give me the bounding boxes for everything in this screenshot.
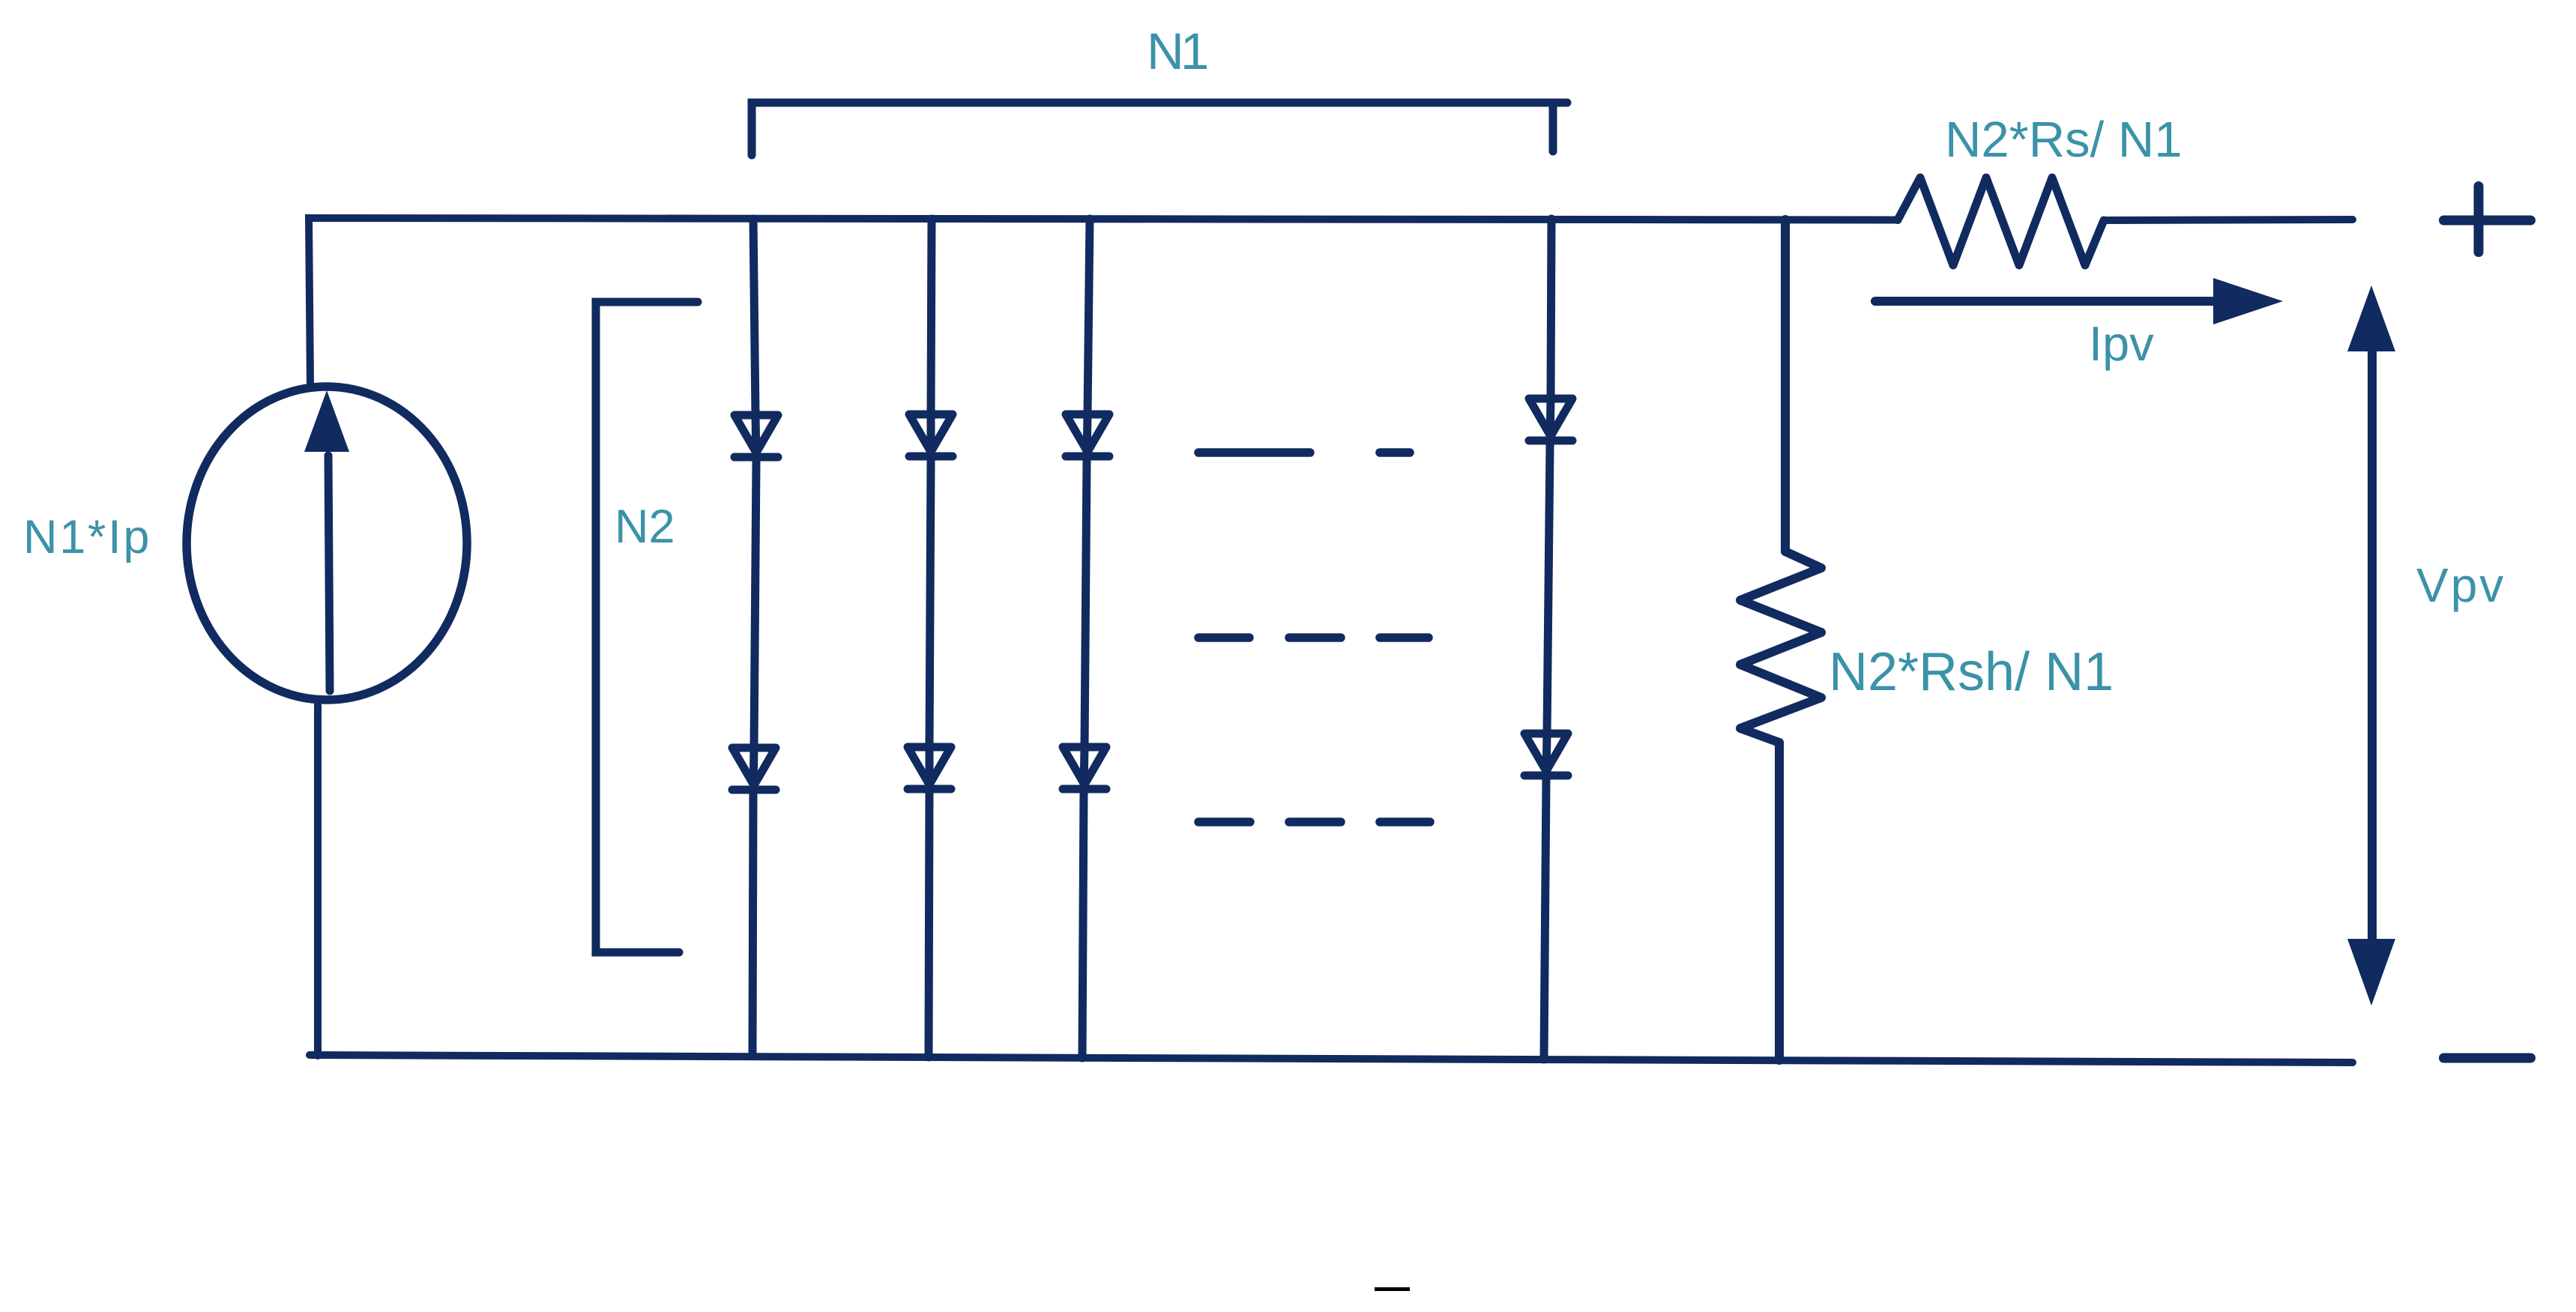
- diode D2 string1: [732, 748, 776, 790]
- diode D1 string2: [909, 414, 953, 456]
- resistor N2*Rs/N1 zigzag: [1898, 178, 2104, 265]
- diode D1 string3: [1066, 414, 1109, 456]
- dashed continuation row 1: [1198, 448, 1410, 457]
- diode D1 string1: [735, 415, 778, 457]
- svg-text:N2: N2: [615, 501, 675, 553]
- N2 bracket: [596, 302, 698, 952]
- wire diode string 1: [752, 219, 756, 1055]
- caption fragment: [1375, 1287, 1410, 1291]
- current source arrow head: [304, 390, 349, 452]
- wire below current source: [314, 705, 322, 1056]
- plus terminal: [2444, 187, 2531, 253]
- dashed continuation row 3: [1198, 817, 1430, 826]
- wire diode string 2: [929, 219, 932, 1057]
- wire diode string N1: [1544, 219, 1551, 1059]
- svg-text:Ipv: Ipv: [2089, 316, 2154, 371]
- current source arrow shaft: [328, 456, 330, 691]
- wire shunt branch vertical top: [1781, 220, 1790, 551]
- svg-text:N1*Ip: N1*Ip: [23, 511, 151, 563]
- Vpv arrow head bottom: [2347, 939, 2395, 1006]
- wire top bus and left vertical riser: [309, 218, 1898, 384]
- N1 bracket: [752, 103, 1567, 155]
- svg-text:Vpv: Vpv: [2416, 558, 2506, 612]
- wire bottom bus: [310, 1055, 2353, 1062]
- Ipv arrow head: [2213, 278, 2283, 324]
- diode D1 stringN1: [1529, 399, 1572, 441]
- diode D2 stringN1: [1524, 734, 1568, 776]
- svg-text:N2*Rs/ N1: N2*Rs/ N1: [1945, 112, 2182, 168]
- current source N1*Ip circle: [187, 387, 467, 700]
- svg-text:N1: N1: [1147, 22, 1207, 80]
- wire shunt branch vertical bottom: [1775, 743, 1784, 1060]
- Ipv arrow shaft: [1875, 297, 2217, 306]
- Vpv arrow head top: [2347, 285, 2395, 351]
- dashed continuation row 2: [1198, 633, 1429, 642]
- resistor N2*Rsh/N1 zigzag: [1740, 551, 1821, 743]
- wire top bus right of resistor: [2104, 220, 2353, 220]
- diode D2 string3: [1063, 747, 1106, 789]
- wire diode string 3: [1082, 219, 1090, 1058]
- svg-text:N2*Rsh/ N1: N2*Rsh/ N1: [1829, 642, 2114, 702]
- diode D2 string2: [908, 747, 951, 789]
- minus terminal: [2444, 1053, 2531, 1063]
- Vpv double arrow shaft: [2368, 348, 2377, 940]
